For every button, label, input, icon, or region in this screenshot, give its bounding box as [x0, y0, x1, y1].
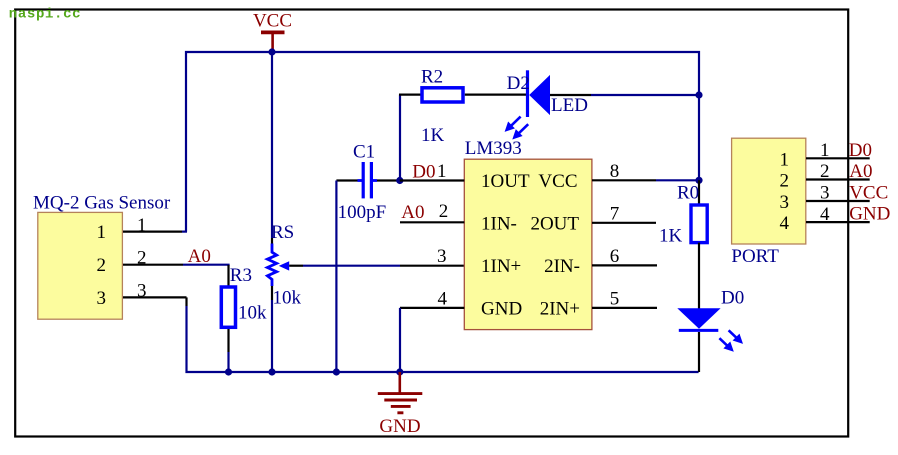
- svg-text:VCC: VCC: [253, 11, 292, 32]
- svg-text:D0: D0: [849, 140, 872, 161]
- wire pin3 corner down: [185, 297, 187, 306]
- node rail R3: [225, 368, 232, 375]
- svg-text:2: 2: [780, 171, 790, 192]
- wire RS wiper to pin3: [289, 265, 464, 267]
- PORT pin 2 wire: [806, 178, 870, 180]
- svg-text:1IN+: 1IN+: [481, 256, 521, 277]
- wire top VCC rail: [186, 52, 699, 232]
- resistor R2: [399, 88, 528, 102]
- svg-text:R2: R2: [421, 66, 443, 87]
- svg-text:D0: D0: [412, 161, 435, 182]
- svg-text:MQ-2 Gas Sensor: MQ-2 Gas Sensor: [33, 193, 171, 214]
- svg-text:1OUT: 1OUT: [481, 171, 530, 192]
- svg-text:PORT: PORT: [731, 246, 779, 267]
- LED D0: [677, 308, 720, 372]
- wire R2 left drop: [399, 95, 401, 181]
- svg-text:7: 7: [610, 203, 620, 224]
- svg-text:LM393: LM393: [465, 138, 522, 159]
- node C1/R2/pin1 junction: [396, 177, 403, 184]
- MQ-2 sensor body: [38, 212, 123, 319]
- wire A0 to R3 top: [183, 265, 229, 266]
- D2 emission arrow 2: [512, 124, 528, 139]
- svg-text:4: 4: [820, 204, 830, 225]
- node rail RS: [268, 368, 275, 375]
- node VCC junction at RS: [268, 48, 275, 55]
- ground symbol GND: [378, 372, 423, 437]
- svg-text:10k: 10k: [273, 288, 302, 309]
- svg-text:GND: GND: [481, 299, 522, 320]
- svg-text:4: 4: [780, 213, 790, 234]
- resistor R0: [691, 180, 707, 309]
- svg-text:3: 3: [437, 246, 447, 267]
- svg-text:A0: A0: [401, 202, 424, 223]
- U1 pin 8 wire: [592, 179, 699, 181]
- node rail C1: [333, 368, 340, 375]
- D0 emission arrow 2: [719, 338, 733, 352]
- wire C1 left drop to rail: [335, 181, 337, 373]
- svg-text:LED: LED: [551, 95, 588, 116]
- svg-text:C1: C1: [353, 141, 375, 162]
- node junction D2 anode: [695, 91, 702, 98]
- svg-text:GND: GND: [379, 416, 420, 437]
- svg-text:10k: 10k: [238, 302, 267, 323]
- svg-text:D2: D2: [507, 73, 530, 94]
- svg-text:RS: RS: [271, 222, 294, 243]
- svg-text:1: 1: [97, 222, 107, 243]
- svg-text:4: 4: [438, 288, 448, 309]
- U1 pin 6 stub: [592, 264, 657, 266]
- node junction pin8/R0: [695, 177, 702, 184]
- svg-text:3: 3: [820, 183, 830, 204]
- capacitor C1: [336, 162, 399, 198]
- svg-text:2: 2: [820, 161, 830, 182]
- svg-text:1: 1: [437, 161, 447, 182]
- svg-text:2IN+: 2IN+: [540, 299, 580, 320]
- MQ-2 pin 3 stub: [123, 296, 187, 298]
- svg-text:3: 3: [780, 192, 790, 213]
- svg-text:2OUT: 2OUT: [530, 214, 579, 235]
- LED D2: [528, 70, 700, 117]
- node rail GND: [396, 368, 403, 375]
- svg-text:VCC: VCC: [849, 183, 888, 204]
- wire ground rail: [187, 306, 699, 372]
- svg-text:2: 2: [439, 201, 449, 222]
- wire pin1 corner to rail: [182, 231, 187, 233]
- svg-text:3: 3: [137, 280, 147, 301]
- svg-text:2IN-: 2IN-: [544, 256, 580, 277]
- U1 pin 4 wire: [400, 308, 464, 372]
- svg-text:A0: A0: [849, 161, 872, 182]
- svg-text:VCC: VCC: [538, 171, 577, 192]
- svg-text:2: 2: [97, 255, 107, 276]
- svg-text:naspi.cc: naspi.cc: [9, 6, 81, 22]
- PORT pin 1 wire: [806, 157, 870, 159]
- PORT pin 3 wire: [806, 200, 870, 202]
- connector PORT body: [732, 138, 806, 244]
- svg-text:2: 2: [137, 248, 147, 269]
- svg-text:D0: D0: [721, 287, 744, 308]
- U1 pin 5 stub: [592, 307, 657, 309]
- resistor R3: [221, 265, 235, 372]
- svg-text:3: 3: [97, 288, 107, 309]
- D2 emission arrow 1: [505, 117, 521, 132]
- U1 pin 7 stub: [592, 222, 656, 224]
- svg-text:6: 6: [610, 246, 620, 267]
- MQ-2 pin 1 stub: [123, 231, 182, 233]
- PORT pin 4 wire: [806, 221, 870, 223]
- svg-text:R3: R3: [230, 265, 252, 286]
- op-amp U1 body: [464, 159, 592, 329]
- svg-text:1: 1: [137, 215, 147, 236]
- svg-text:R0: R0: [677, 182, 699, 203]
- svg-text:1K: 1K: [659, 226, 683, 247]
- svg-text:1: 1: [820, 140, 830, 161]
- power symbol VCC: [253, 11, 292, 52]
- U1 pin 1 wire: [400, 179, 465, 181]
- svg-text:GND: GND: [849, 204, 890, 225]
- potentiometer RS: [267, 52, 289, 372]
- U1 pin 2 wire: [400, 221, 464, 223]
- MQ-2 pin 2 stub: [123, 264, 183, 266]
- svg-text:8: 8: [610, 161, 620, 182]
- svg-text:100pF: 100pF: [338, 202, 387, 223]
- D0 emission arrow 1: [729, 330, 743, 344]
- svg-text:1IN-: 1IN-: [481, 214, 517, 235]
- svg-text:1K: 1K: [421, 125, 445, 146]
- svg-text:5: 5: [610, 288, 620, 309]
- svg-text:1: 1: [780, 149, 790, 170]
